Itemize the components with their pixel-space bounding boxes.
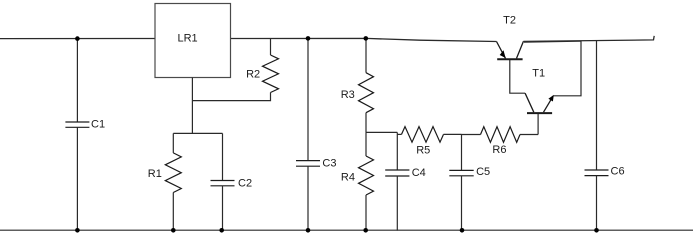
svg-text:C6: C6 bbox=[611, 166, 625, 178]
svg-text:C1: C1 bbox=[91, 119, 105, 131]
svg-text:R1: R1 bbox=[148, 168, 162, 180]
svg-text:C3: C3 bbox=[322, 158, 336, 170]
svg-text:LR1: LR1 bbox=[178, 32, 198, 44]
svg-text:C2: C2 bbox=[238, 177, 252, 189]
svg-text:R5: R5 bbox=[416, 144, 430, 156]
svg-text:R6: R6 bbox=[492, 144, 506, 156]
svg-text:C5: C5 bbox=[476, 166, 490, 178]
svg-text:T1: T1 bbox=[532, 68, 545, 80]
svg-text:R2: R2 bbox=[246, 69, 260, 81]
svg-text:R4: R4 bbox=[341, 171, 355, 183]
svg-text:C4: C4 bbox=[412, 167, 426, 179]
svg-text:R3: R3 bbox=[341, 89, 355, 101]
svg-text:T2: T2 bbox=[503, 15, 516, 27]
